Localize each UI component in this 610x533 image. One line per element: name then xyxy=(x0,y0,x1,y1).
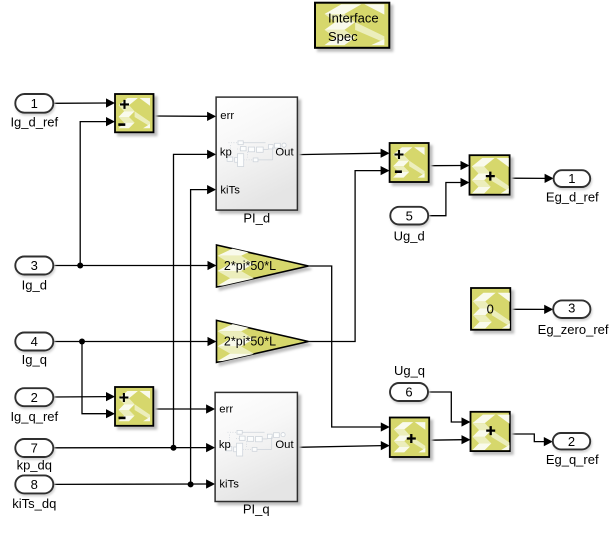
svg-text:kiTs: kiTs xyxy=(220,185,240,197)
svg-text:6: 6 xyxy=(405,385,412,400)
svg-text:Ig_q_ref: Ig_q_ref xyxy=(10,409,58,424)
svg-text:err: err xyxy=(219,404,233,416)
svg-text:kiTs_dq: kiTs_dq xyxy=(12,496,56,511)
svg-text:PI_q: PI_q xyxy=(243,502,270,517)
svg-text:Eg_q_ref: Eg_q_ref xyxy=(546,452,599,467)
svg-text:7: 7 xyxy=(31,440,38,455)
svg-text:Eg_d_ref: Eg_d_ref xyxy=(546,190,599,205)
svg-text:Ug_q: Ug_q xyxy=(394,363,425,378)
svg-text:1: 1 xyxy=(568,171,575,186)
svg-text:1: 1 xyxy=(31,96,38,111)
svg-text:Ug_d: Ug_d xyxy=(394,229,425,244)
svg-text:Ig_d: Ig_d xyxy=(22,278,47,293)
svg-text:3: 3 xyxy=(568,301,575,316)
svg-text:Out: Out xyxy=(275,439,294,451)
svg-text:5: 5 xyxy=(406,208,413,223)
svg-text:Ig_d_ref: Ig_d_ref xyxy=(10,114,58,129)
svg-text:PI_d: PI_d xyxy=(243,211,270,226)
svg-text:4: 4 xyxy=(31,334,38,349)
svg-text:3: 3 xyxy=(31,258,38,273)
svg-text:kp: kp xyxy=(219,439,231,451)
svg-text:2: 2 xyxy=(31,390,38,405)
svg-text:2: 2 xyxy=(568,434,575,449)
svg-text:kp_dq: kp_dq xyxy=(17,457,52,472)
svg-text:Out: Out xyxy=(275,146,294,158)
svg-text:kp: kp xyxy=(220,146,232,158)
svg-text:Eg_zero_ref: Eg_zero_ref xyxy=(538,322,609,337)
svg-text:8: 8 xyxy=(31,477,38,492)
svg-text:Ig_q: Ig_q xyxy=(22,352,47,367)
svg-text:kiTs: kiTs xyxy=(219,479,239,491)
svg-text:Interface: Interface xyxy=(328,11,379,26)
svg-text:err: err xyxy=(220,110,234,122)
svg-text:0: 0 xyxy=(487,302,494,317)
svg-text:Spec: Spec xyxy=(328,29,358,44)
svg-text:2*pi*50*L: 2*pi*50*L xyxy=(224,334,276,348)
svg-text:2*pi*50*L: 2*pi*50*L xyxy=(224,259,276,273)
